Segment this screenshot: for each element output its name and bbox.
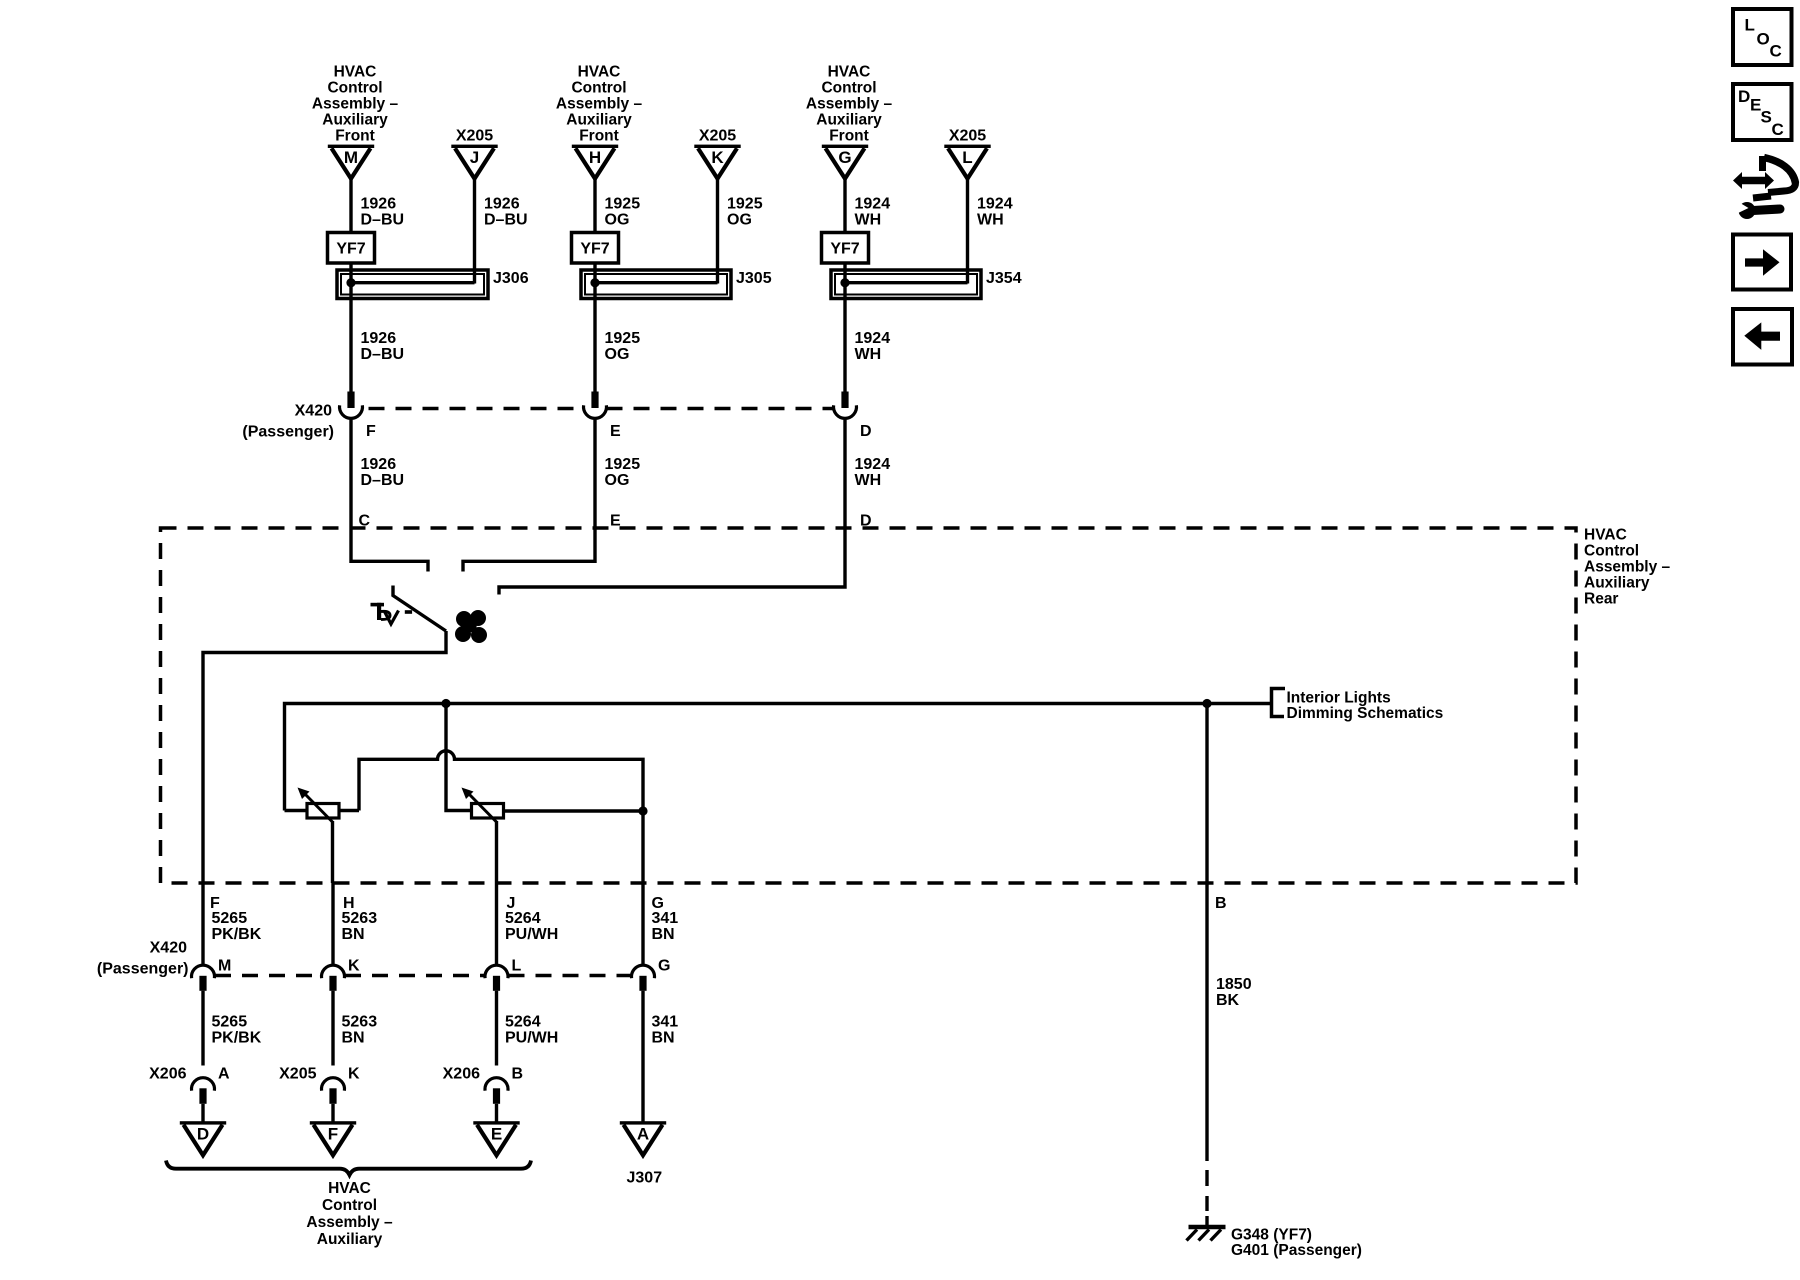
svg-text:D–BU: D–BU [361,212,405,229]
svg-text:K: K [348,1066,360,1083]
svg-text:Auxiliary: Auxiliary [566,112,632,129]
svg-text:X205: X205 [456,127,493,144]
svg-text:F: F [328,1125,338,1144]
svg-text:X205: X205 [699,127,736,144]
svg-text:BN: BN [652,926,675,943]
svg-text:X205: X205 [279,1066,316,1083]
connector X205 terminal pin [329,1088,336,1104]
svg-text:YF7: YF7 [580,241,609,258]
wire 1925 OG from X420 to rear assembly pin E [593,419,596,528]
svg-text:X206: X206 [443,1066,480,1083]
ground symbol G348/G401 [1187,1227,1226,1241]
svg-text:5265: 5265 [212,1014,248,1031]
wire 1926 D–BU from X420 to rear assembly pin C [349,419,352,528]
connector X420 terminal pin K (lower) [329,976,336,991]
component label: HVAC Control Assembly - Auxiliary Front (group 2) [556,64,643,145]
svg-text:5263: 5263 [342,1014,378,1031]
connector X420 terminal pin D [841,392,848,409]
svg-text:BN: BN [652,1030,675,1047]
junction node (dimmer feed / ground wire B) [1202,699,1211,708]
wire 5264 PU/WH below X420 [495,991,498,1066]
svg-text:341: 341 [652,910,679,927]
svg-text:C: C [1772,120,1784,139]
wire from pin E to switch contact [463,528,595,572]
wire 1924 WH from splice to X420 pin D [843,263,846,393]
triangle connector F (bottom) [310,1121,356,1155]
svg-text:X206: X206 [149,1066,186,1083]
wire label 1926 D–BU [361,196,405,229]
wire rheostat 1 wiper-return with crossover hop [359,751,643,883]
svg-text:341: 341 [652,1014,679,1031]
svg-text:1924: 1924 [855,330,891,347]
triangle connector J (X205) [451,145,497,179]
sidebar icon: back arrow box [1733,309,1792,365]
wire from pin D to switch contact [499,528,845,595]
component label: HVAC Control Assembly - Auxiliary Rear [1584,527,1671,608]
connector X420 terminal pin M (lower) [199,976,206,991]
svg-text:G348 (YF7): G348 (YF7) [1231,1227,1312,1244]
connector X420 terminal pin L (lower) [493,976,500,991]
svg-text:Rear: Rear [1584,591,1618,608]
svg-text:F: F [366,423,376,440]
svg-text:A: A [637,1125,649,1144]
svg-text:L: L [512,958,522,975]
svg-text:5264: 5264 [505,910,541,927]
triangle connector H (HVAC Control Assembly Auxiliary Front) [572,145,618,179]
svg-text:L: L [962,148,972,167]
triangle connector M (HVAC Control Assembly Auxiliary Front) [328,145,374,179]
blower switch position glyph [371,603,413,624]
triangle connector G (HVAC Control Assembly Auxiliary Front) [822,145,868,179]
wire segment from rear assembly pin into X420 M [201,883,204,965]
triangle connector L (X205) [944,145,990,179]
svg-text:J307: J307 [627,1170,663,1187]
wire label 1926 D–BU (right branch) [484,196,528,229]
triangle connector D (bottom) [180,1121,226,1155]
svg-text:O: O [1757,30,1770,49]
svg-text:1925: 1925 [605,196,641,213]
wire 1925 OG from H to YF7 [593,179,596,234]
svg-text:1926: 1926 [484,196,520,213]
svg-text:E: E [610,513,621,530]
svg-text:E: E [610,423,621,440]
connector label X420 (Passenger) upper [242,403,334,441]
svg-text:L: L [1745,16,1755,35]
wire label 5265 PK/BK (above X420) [212,910,262,943]
connector X420 terminal pin E [591,392,598,409]
svg-text:PU/WH: PU/WH [505,926,558,943]
svg-text:M: M [344,148,358,167]
svg-text:B: B [512,1066,524,1083]
svg-text:J354: J354 [986,270,1022,287]
wire label 1850 BK [1216,976,1252,1009]
svg-text:(Passenger): (Passenger) [242,424,334,441]
svg-text:BK: BK [1216,992,1240,1009]
svg-text:Assembly –: Assembly – [806,96,893,113]
wire 341 BN below X420 [641,991,644,1122]
svg-text:PK/BK: PK/BK [212,1030,262,1047]
svg-text:YF7: YF7 [336,241,365,258]
triangle connector E (bottom) [473,1121,519,1155]
svg-text:X420: X420 [295,403,332,420]
connector X206 terminal pin [493,1088,500,1104]
svg-text:1924: 1924 [977,196,1013,213]
svg-text:5263: 5263 [342,910,378,927]
svg-text:Interior Lights: Interior Lights [1287,690,1391,707]
blower fan icon [455,610,487,643]
wire 1850 BK dashed segment to ground [1205,1170,1208,1227]
off-page connector: Interior Lights Dimming Schematics [1272,689,1286,717]
junction node (rheostat 2 return / wire G) [638,806,647,815]
svg-text:X205: X205 [949,127,986,144]
svg-text:D: D [860,423,872,440]
svg-text:Front: Front [579,128,619,145]
wire label 5263 BN (below X420) [342,1014,378,1047]
wire label 341 BN (below X420) [652,1014,679,1047]
svg-text:5265: 5265 [212,910,248,927]
connector X420 female terminal K (lower) [322,965,345,978]
svg-text:HVAC: HVAC [578,64,621,81]
wire 1926 D–BU from splice to X420 pin F [349,263,352,393]
svg-text:OG: OG [605,212,630,229]
connector X420 (Passenger) dashed line (lower) [215,974,321,977]
svg-text:Assembly –: Assembly – [312,96,399,113]
svg-text:G: G [838,148,851,167]
dashed component box: HVAC Control Assembly - Auxiliary Rear [161,528,1577,883]
wire label 1926 D–BU (below splice) [361,330,405,363]
connector X206 terminal pin [199,1088,206,1104]
svg-text:1925: 1925 [605,330,641,347]
wire label 1925 OG (below X420) [605,456,641,489]
svg-text:Control: Control [322,1197,377,1214]
svg-text:WH: WH [855,212,882,229]
svg-text:Control: Control [1584,543,1639,560]
svg-text:J306: J306 [493,270,529,287]
component label: HVAC Control Assembly - Auxiliary Front (group 3) [806,64,893,145]
svg-text:HVAC: HVAC [828,64,871,81]
svg-text:Control: Control [327,80,382,97]
connector X420 female terminal F [340,405,363,418]
wire label 1924 WH (below X420) [855,456,891,489]
svg-text:Auxiliary: Auxiliary [317,1231,383,1248]
svg-text:BN: BN [342,1030,365,1047]
option box YF7 (group 2) [572,233,619,264]
connector X420 female terminal L (lower) [485,965,508,978]
svg-text:Control: Control [821,80,876,97]
svg-text:X420: X420 [150,940,187,957]
svg-text:Assembly –: Assembly – [306,1214,393,1231]
svg-text:1924: 1924 [855,456,891,473]
connector X420 female terminal M (lower) [192,965,215,978]
wire from X206 to triangle D [201,1104,204,1122]
svg-text:1925: 1925 [605,456,641,473]
connector X205 female terminal [322,1078,345,1091]
svg-text:C: C [1770,42,1782,61]
svg-text:Auxiliary: Auxiliary [816,112,882,129]
component label: HVAC Control Assembly - Auxiliary Front (group 1) [312,64,399,145]
svg-text:D–BU: D–BU [361,346,405,363]
wire 1925 OG from splice to X420 pin E [593,263,596,393]
sidebar icon: DESC box [1733,84,1792,140]
wire label 5265 PK/BK (below X420) [212,1014,262,1047]
svg-text:WH: WH [977,212,1004,229]
component label: HVAC Control Assembly - Auxiliary (bottom) [306,1180,393,1248]
svg-text:A: A [218,1066,230,1083]
svg-text:WH: WH [855,346,882,363]
wire label 1926 D–BU (below X420) [361,456,405,489]
splice pack J305 [581,270,731,299]
svg-text:YF7: YF7 [830,241,859,258]
svg-text:1926: 1926 [361,196,397,213]
wire segment from rear assembly pin into X420 L [495,883,498,965]
svg-text:OG: OG [605,472,630,489]
connector label X420 (Passenger) lower [97,940,189,978]
wire 5265 PK/BK below X420 [201,991,204,1066]
connector X206 female terminal [485,1078,508,1091]
svg-text:1924: 1924 [855,196,891,213]
wire 1924 WH from X420 to rear assembly pin D [843,419,846,528]
svg-text:J: J [470,148,479,167]
wire 1924 WH from L into splice J354 [966,179,969,284]
wire label 1924 WH (right branch) [977,196,1013,229]
wire 1926 D–BU from M to YF7 [349,179,352,234]
svg-text:M: M [218,958,231,975]
pin letters F H J G at rear assembly bottom [210,895,664,912]
svg-text:D: D [1738,87,1750,106]
wire from X206 to triangle E [495,1104,498,1122]
brace: HVAC Control Assembly - Auxiliary [166,1161,531,1176]
svg-text:Assembly –: Assembly – [1584,559,1671,576]
svg-text:K: K [348,958,360,975]
connector X420 female terminal D [834,405,857,418]
sidebar icon: LOC box [1733,9,1792,65]
option box YF7 (group 1) [328,233,375,264]
wire 1850 BK from junction to pin B and ground [1205,704,1208,1162]
wire label 5263 BN (above X420) [342,910,378,943]
svg-text:D–BU: D–BU [361,472,405,489]
wire 5263 BN below X420 [331,991,334,1066]
wire label 1925 OG (below splice) [605,330,641,363]
wire segment from rear assembly pin into X420 G [641,883,644,965]
wire from junction down to rheostat 2 [446,704,472,811]
svg-text:WH: WH [855,472,882,489]
svg-text:D–BU: D–BU [484,212,528,229]
wire segment from rear assembly pin into X420 K [331,883,334,965]
svg-text:K: K [711,148,724,167]
svg-text:Auxiliary: Auxiliary [1584,575,1650,592]
svg-text:BN: BN [342,926,365,943]
svg-text:OG: OG [605,346,630,363]
svg-text:HVAC: HVAC [334,64,377,81]
svg-text:G401 (Passenger): G401 (Passenger) [1231,1242,1362,1259]
svg-text:D: D [197,1125,209,1144]
wire label 1924 WH [855,196,891,229]
dimmer feed wire (to Interior Lights Dimming) [285,704,1272,811]
splice pack J306 [337,270,488,299]
sidebar icon: swap arrows with wrench [1733,156,1796,219]
svg-text:Control: Control [571,80,626,97]
svg-text:H: H [589,148,601,167]
svg-text:OG: OG [727,212,752,229]
svg-text:PK/BK: PK/BK [212,926,262,943]
svg-text:Front: Front [335,128,375,145]
rheostat R1 (illumination dimmer) [285,788,360,823]
svg-text:Front: Front [829,128,869,145]
wire label 5264 PU/WH (below X420) [505,1014,558,1047]
ground label G348 (YF7) / G401 (Passenger) [1231,1227,1362,1260]
wire 1926 D–BU from J into splice J306 [473,179,476,284]
connector X420 female terminal G (lower) [632,965,655,978]
svg-text:1926: 1926 [361,456,397,473]
wire label 1925 OG (right branch) [727,196,763,229]
wire label 5264 PU/WH (above X420) [505,910,558,943]
wire 1924 WH from G to YF7 [843,179,846,234]
wire label 1925 OG [605,196,641,229]
wire from rheostat R2 wiper to pin J [495,821,498,883]
wire label 1924 WH (below splice) [855,330,891,363]
svg-text:HVAC: HVAC [328,1180,371,1197]
svg-text:E: E [491,1125,502,1144]
junction node (dimmer feed / rheostat 2) [441,699,450,708]
svg-text:Assembly –: Assembly – [556,96,643,113]
connector X206 female terminal [192,1078,215,1091]
wire from rheostat R1 wiper to pin H [331,821,334,883]
svg-text:Dimming Schematics: Dimming Schematics [1287,705,1444,722]
svg-text:S: S [1761,108,1772,127]
wire from X205 to triangle F [331,1104,334,1122]
svg-text:1925: 1925 [727,196,763,213]
svg-text:J305: J305 [736,270,772,287]
svg-text:G: G [658,958,670,975]
connector X420 terminal pin F [347,392,354,409]
connector X420 terminal pin G (lower) [639,976,646,991]
svg-text:Auxiliary: Auxiliary [322,112,388,129]
triangle connector K (X205) [694,145,740,179]
svg-text:PU/WH: PU/WH [505,1030,558,1047]
svg-text:5264: 5264 [505,1014,541,1031]
svg-text:1850: 1850 [1216,976,1252,993]
rheostat R2 (illumination dimmer) [462,788,644,823]
wire label 341 BN (above X420) [652,910,679,943]
svg-text:1926: 1926 [361,330,397,347]
svg-text:B: B [1215,895,1227,912]
svg-text:(Passenger): (Passenger) [97,961,189,978]
svg-text:HVAC: HVAC [1584,527,1627,544]
label Interior Lights Dimming Schematics [1287,690,1444,723]
wire from switch blade to pin F [203,631,446,883]
splice pack J354 [831,270,981,299]
wire from pin C to switch contact [351,528,428,572]
blower switch blade [393,586,446,632]
connector X420 female terminal E [584,405,607,418]
triangle connector A (bottom) [620,1121,666,1155]
option box YF7 (group 3) [822,233,869,264]
connector X420 (Passenger) dashed line (upper) [369,407,584,410]
wire 1925 OG from K into splice J305 [716,179,719,284]
sidebar icon: forward arrow box [1733,235,1791,290]
